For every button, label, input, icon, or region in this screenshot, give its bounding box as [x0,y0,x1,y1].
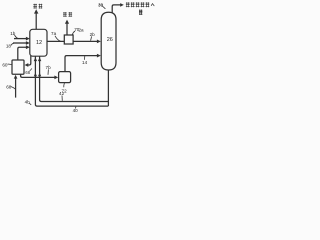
svg-text:66: 66 [25,70,30,75]
svg-text:40: 40 [73,108,79,113]
svg-text:30: 30 [98,2,103,7]
svg-text:12: 12 [36,40,42,46]
svg-text:2b: 2b [90,32,96,37]
svg-text:68: 68 [6,84,12,89]
svg-text:4b: 4b [25,100,31,105]
svg-text:60: 60 [2,62,8,67]
svg-text:1b: 1b [10,31,16,36]
svg-text:7a: 7a [51,31,57,36]
svg-text:18: 18 [6,44,12,49]
svg-text:42: 42 [59,91,65,96]
svg-text:26: 26 [107,37,113,43]
svg-text:14: 14 [82,60,88,65]
svg-text:2a: 2a [78,27,84,32]
svg-text:7b: 7b [46,65,52,70]
